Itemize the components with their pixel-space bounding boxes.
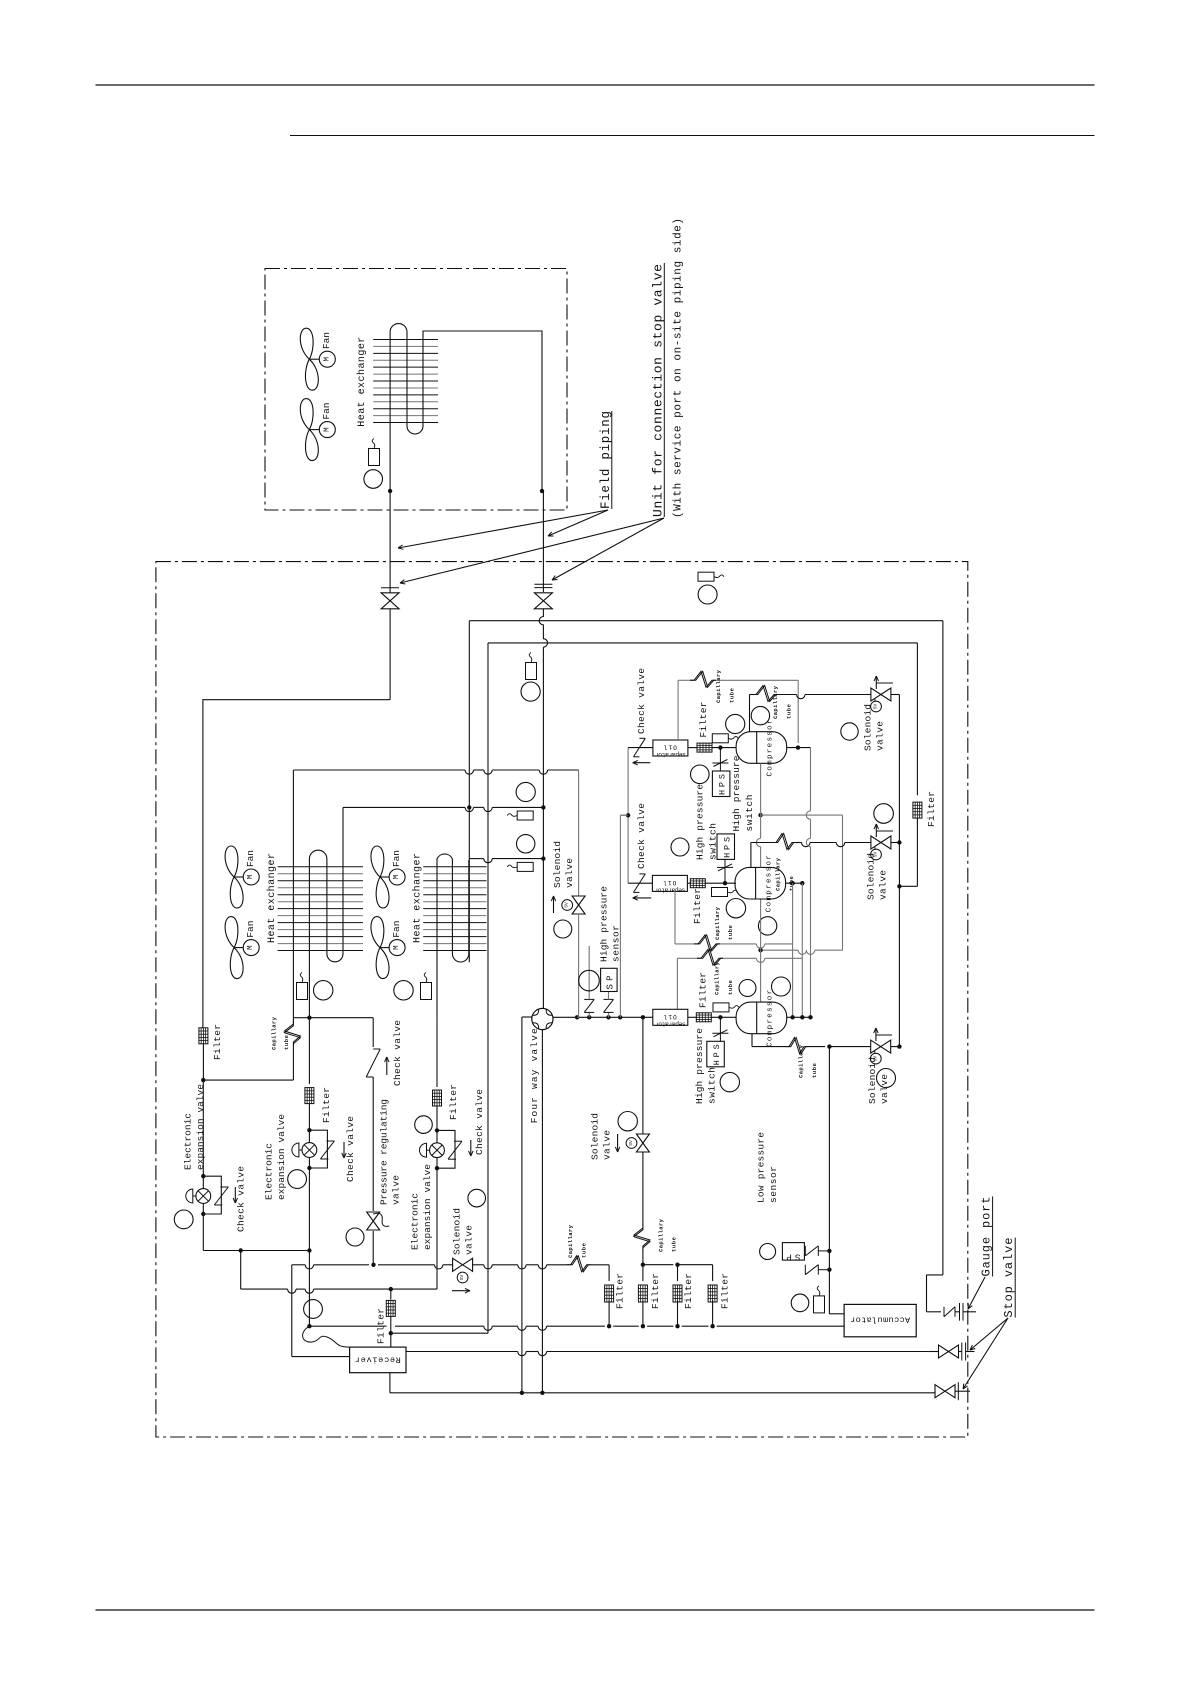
fan motors (main HX) bbox=[380, 876, 389, 878]
svg-text:tube: tube bbox=[727, 924, 734, 940]
svg-text:switch: switch bbox=[744, 795, 755, 832]
node: receiver filter riser top bbox=[389, 1287, 393, 1291]
node: PRV / liquid bus bbox=[371, 1263, 375, 1267]
svg-text:separator: separator bbox=[655, 751, 686, 758]
filter FB4 bbox=[708, 1285, 717, 1302]
oil separator 2 bbox=[652, 875, 687, 891]
wire: liquid line to stop valve bbox=[406, 1351, 518, 1353]
node: gas riser / header1 bbox=[541, 805, 545, 809]
deco circle SV2 bbox=[874, 804, 894, 824]
svg-text:Compressor: Compressor bbox=[767, 720, 775, 777]
wire: SV column x899.4 bbox=[898, 843, 900, 887]
svg-text:Filter: Filter bbox=[448, 1084, 459, 1120]
thermistor gas-pipe bbox=[526, 663, 537, 680]
pressure regulating valve PRV bbox=[367, 1212, 380, 1221]
wire: SV2 out bbox=[891, 842, 900, 844]
node: SV column y842.5 bbox=[897, 840, 901, 844]
wire: EEV2 down to receiver squiggle node bbox=[308, 1168, 310, 1251]
svg-text:Fan: Fan bbox=[391, 850, 402, 867]
compressor 2 bbox=[735, 867, 786, 899]
node: receiver riser y1333.2 bbox=[389, 1331, 393, 1335]
deco circle EEV2 bbox=[288, 1170, 307, 1189]
wire: field liquid pipe bbox=[389, 491, 391, 593]
accumulator bbox=[844, 1304, 916, 1336]
dash-dot box: outdoor unit boundary bbox=[156, 562, 968, 1437]
svg-text:SV: SV bbox=[459, 1275, 465, 1281]
svg-text:SV: SV bbox=[628, 1140, 634, 1146]
svg-text:Capillary: Capillary bbox=[774, 857, 781, 891]
wire: PRV to main liquid bus bbox=[372, 1231, 374, 1265]
svg-text:(With service port on on-site: (With service port on on-site piping sid… bbox=[672, 218, 684, 518]
heat exchanger fins (main HX) bbox=[423, 866, 486, 868]
deco circle PRV bbox=[346, 1228, 364, 1246]
fan motors (main HX) bbox=[234, 876, 243, 878]
thermistor comp3 bbox=[713, 1003, 729, 1012]
high pressure switch HPS1 bbox=[719, 748, 721, 763]
svg-text:switch: switch bbox=[706, 1067, 717, 1104]
svg-text:valve: valve bbox=[874, 721, 885, 751]
node: comp2 inlet bbox=[723, 881, 727, 885]
receiver bbox=[350, 1347, 406, 1373]
svg-text:valve: valve bbox=[877, 870, 888, 900]
svg-text:SV: SV bbox=[873, 704, 879, 710]
wire: N1 sensor stub bbox=[588, 1012, 590, 1017]
wire: receiver bottom to gas line bbox=[389, 1373, 391, 1393]
deco circle SV3 bbox=[877, 1069, 896, 1088]
svg-text:Solenoid: Solenoid bbox=[452, 1208, 463, 1255]
node: bus SP bbox=[606, 1015, 610, 1019]
wire: gas riser from stop valve to four way valve bbox=[389, 609, 391, 700]
svg-text:Compressor: Compressor bbox=[767, 990, 775, 1047]
svg-text:valve: valve bbox=[464, 1225, 475, 1255]
wire: HX1 outlet header y807.4 bbox=[343, 806, 465, 808]
svg-text:valve: valve bbox=[391, 1175, 402, 1205]
fan F2 (connection unit) bbox=[300, 399, 313, 430]
label Check valve (EEV1) bbox=[234, 1187, 236, 1203]
svg-text:Check valve: Check valve bbox=[345, 1116, 356, 1182]
node: bus x620 bbox=[618, 1015, 622, 1019]
wire: y1333.2 link bbox=[391, 1332, 488, 1334]
wire: EEV2 line bbox=[308, 1018, 310, 1084]
svg-text:High pressure: High pressure bbox=[695, 784, 706, 860]
svg-text:Check valve: Check valve bbox=[236, 1166, 247, 1232]
svg-text:Four way valve: Four way valve bbox=[529, 1028, 540, 1123]
node: SV6 / filter line bbox=[641, 1263, 645, 1267]
solenoid valve SV6 bbox=[636, 1134, 649, 1143]
wire: oil separator1 top riser bbox=[677, 680, 679, 740]
node: SV column end bbox=[897, 1044, 901, 1048]
svg-text:valve: valve bbox=[602, 1130, 613, 1160]
svg-text:expansion valve: expansion valve bbox=[422, 1164, 433, 1250]
node: bus SV4 bbox=[575, 1015, 579, 1019]
leader arrows: stop valve bbox=[970, 1318, 1008, 1350]
svg-text:M: M bbox=[323, 427, 331, 432]
oil separator 3 bbox=[653, 1009, 688, 1025]
svg-text:M: M bbox=[247, 874, 255, 879]
svg-text:Check valve: Check valve bbox=[392, 1020, 403, 1086]
wire: four way valve bottom leg x542.4 bbox=[541, 1030, 543, 1393]
wire: CV1 riser stub bbox=[620, 814, 628, 816]
four way valve FWV bbox=[532, 1008, 553, 1029]
svg-text:M: M bbox=[393, 945, 401, 950]
check valve CV2 bbox=[634, 874, 646, 893]
wire: EEV1 line bbox=[202, 1080, 204, 1176]
svg-text:Low pressure: Low pressure bbox=[756, 1132, 767, 1203]
wire: right column verticals bbox=[792, 883, 794, 1017]
svg-text:Fan: Fan bbox=[321, 332, 332, 349]
wire: EEV3 line bbox=[436, 1018, 438, 1087]
deco circle SP2 bbox=[760, 1244, 776, 1260]
wire: gas header lower y642.9 bbox=[488, 642, 917, 644]
heat exchanger coil (connection unit) bbox=[390, 324, 542, 491]
wire: filter bottoms line y1326.2 bbox=[608, 1300, 610, 1326]
svg-text:Filter: Filter bbox=[719, 1273, 730, 1309]
wire: accumulator riser x829.4 bbox=[828, 1047, 830, 1314]
stop valve SVL (liquid, connection) bbox=[381, 587, 399, 589]
svg-text:Fan: Fan bbox=[245, 850, 256, 867]
svg-text:Receiver: Receiver bbox=[355, 1355, 401, 1365]
wire: compressor2 suction line y883.2 bbox=[628, 882, 652, 884]
svg-text:Heat exchanger: Heat exchanger bbox=[356, 337, 368, 427]
filter FB3 bbox=[673, 1285, 682, 1302]
svg-text:Filter: Filter bbox=[698, 972, 709, 1008]
wire: SV4 riser bbox=[578, 770, 580, 896]
svg-text:Heat exchanger: Heat exchanger bbox=[266, 853, 278, 943]
filter F-C2 bbox=[690, 879, 705, 888]
deco circle EEV3 bbox=[415, 1116, 433, 1134]
svg-text:Capillary: Capillary bbox=[714, 961, 721, 995]
electronic expansion valve EEV1 bbox=[201, 1174, 205, 1178]
svg-text:M: M bbox=[323, 356, 331, 361]
thermistor header1 bbox=[516, 782, 535, 801]
svg-text:Check valve: Check valve bbox=[636, 668, 647, 734]
wire: oil return capillary A1 bbox=[678, 679, 690, 681]
thermistor header2 bbox=[517, 835, 535, 853]
wire: branch to check valve CVa bbox=[309, 1017, 373, 1019]
svg-text:tube: tube bbox=[788, 875, 795, 891]
svg-text:Gauge port: Gauge port bbox=[980, 1197, 994, 1277]
wire: EEV1 to bottom header bbox=[202, 1214, 204, 1251]
node: EEV1 top junction bbox=[201, 1078, 205, 1082]
wire: bus drop to receiver loop x291.8 bbox=[291, 1265, 293, 1357]
node: header1/riser469 bbox=[467, 805, 471, 809]
svg-text:Oil: Oil bbox=[664, 744, 677, 751]
thermistor (main HX) bbox=[394, 981, 413, 1000]
gauge port line bbox=[927, 1274, 943, 1276]
svg-text:Electronic: Electronic bbox=[410, 1193, 421, 1250]
node: comp1 suction x798 bbox=[796, 745, 800, 749]
node: bus x792.6 bbox=[790, 1015, 794, 1019]
electronic expansion valve EEV3 bbox=[435, 1128, 439, 1132]
wire: branch x240.7 bbox=[240, 1251, 242, 1290]
page top rule bbox=[96, 84, 1095, 86]
thermistor top-right bbox=[698, 572, 714, 581]
svg-text:tube: tube bbox=[671, 1236, 678, 1252]
filter FB2 bbox=[638, 1285, 647, 1302]
svg-text:tube: tube bbox=[727, 979, 734, 995]
electronic expansion valve EEV2 bbox=[307, 1128, 311, 1132]
wire: SV4 to bus bbox=[578, 914, 580, 1017]
filter F-C1 bbox=[697, 743, 712, 752]
deco circle SV6 bbox=[618, 1112, 637, 1131]
deco circle SV1 bbox=[841, 723, 858, 740]
svg-text:Check valve: Check valve bbox=[636, 803, 647, 869]
svg-text:Filter: Filter bbox=[650, 1273, 661, 1309]
wire: long gas line x488 bbox=[487, 643, 489, 1333]
svg-text:Fan: Fan bbox=[391, 921, 402, 938]
wire: compressor1 oil line y815 bbox=[758, 813, 762, 817]
svg-text:HPS: HPS bbox=[722, 837, 732, 858]
svg-text:Fan: Fan bbox=[321, 403, 332, 420]
wire: SV1 to suction column bbox=[891, 694, 900, 696]
node: accumulator riser / B3 bbox=[827, 1044, 831, 1048]
filter FL1 (liquid line) bbox=[199, 1028, 208, 1044]
node: gas riser / header2 bbox=[541, 856, 545, 860]
deco circle SP1 bbox=[579, 970, 600, 991]
fan (main HX) bbox=[225, 846, 238, 877]
receiver inlet squiggle bbox=[303, 1326, 350, 1347]
label Check valve (EEV3) bbox=[470, 1140, 472, 1156]
filter F-REC bbox=[386, 1300, 395, 1316]
wire: CVa to pressure regulating valve bbox=[372, 1077, 374, 1211]
heat exchanger fins (main HX) bbox=[278, 866, 363, 868]
svg-text:Oil: Oil bbox=[664, 1013, 677, 1020]
svg-text:M: M bbox=[393, 874, 401, 879]
low pressure sensor SP2 bbox=[818, 1250, 829, 1252]
page bottom rule bbox=[96, 1609, 1095, 1611]
svg-text:High pressure: High pressure bbox=[731, 755, 742, 831]
section rule bbox=[290, 135, 1095, 137]
filter FR (right column) bbox=[913, 802, 922, 818]
solenoid valve SV3 bbox=[871, 1040, 881, 1053]
deco circle EEV1 bbox=[174, 1210, 193, 1229]
wire: SV6 to capillary bbox=[642, 1152, 644, 1224]
wire: comp2/comp3 riser bbox=[760, 900, 762, 1003]
svg-text:Capillary: Capillary bbox=[271, 1016, 278, 1050]
wire: liquid bus y1264.8 bbox=[292, 1264, 305, 1266]
svg-text:Solenoid: Solenoid bbox=[552, 841, 563, 888]
svg-text:SV: SV bbox=[564, 902, 570, 908]
wire: SV6 branch x642.8 bbox=[642, 1017, 644, 1134]
svg-text:Solenoid: Solenoid bbox=[865, 853, 876, 900]
wire: stub to column x620 at y815 bbox=[620, 814, 628, 816]
svg-text:tube: tube bbox=[785, 703, 792, 719]
label Check valve (EEV2) bbox=[343, 1142, 345, 1158]
node: bus x810.5 bbox=[808, 1015, 812, 1019]
thermistor (connection unit) bbox=[369, 449, 380, 466]
deco circle SV4 bbox=[554, 920, 572, 938]
deco circle HPS3 bbox=[720, 1072, 739, 1091]
wire: riser x469 (inner gas) bbox=[468, 621, 470, 963]
filter FB1 bbox=[605, 1285, 614, 1302]
svg-text:Filter: Filter bbox=[321, 1087, 332, 1123]
svg-text:Accumulator: Accumulator bbox=[850, 1315, 910, 1325]
svg-text:Filter: Filter bbox=[683, 1273, 694, 1309]
stop valve SVG (gas, connection) bbox=[534, 583, 552, 585]
check valve CV1 bbox=[634, 738, 646, 757]
sensor stub N2 bbox=[804, 1265, 806, 1275]
compressor 1 bbox=[736, 732, 787, 764]
solenoid valve SV5 bbox=[453, 1258, 463, 1271]
node: comp1 inlet bbox=[718, 745, 722, 749]
node: bus SV6 bbox=[641, 1015, 645, 1019]
leader arrows: field piping bbox=[548, 510, 608, 536]
svg-text:tube: tube bbox=[283, 1034, 290, 1050]
svg-text:Capillary: Capillary bbox=[797, 1044, 804, 1078]
filter F-EEV2 bbox=[305, 1088, 314, 1104]
deco circle receiver bbox=[304, 1300, 323, 1319]
filter F-EEV3 bbox=[433, 1090, 442, 1106]
wire: HX header y770 to SV4 bbox=[293, 769, 465, 771]
svg-text:Capillary: Capillary bbox=[657, 1218, 664, 1252]
wire: compressor1 discharge B1 bbox=[749, 695, 751, 732]
svg-text:High pressure: High pressure bbox=[599, 886, 610, 962]
solenoid valve SV2 bbox=[871, 836, 881, 849]
svg-text:tube: tube bbox=[811, 1062, 818, 1078]
receiver filter riser bbox=[390, 1289, 392, 1299]
svg-text:sensor: sensor bbox=[768, 1166, 779, 1203]
wire: field gas pipe bbox=[542, 490, 543, 492]
wire: filter column x917.4 bbox=[916, 643, 918, 795]
node: comp2 suction x802.3 bbox=[800, 881, 804, 885]
heat exchanger coil (main HX) bbox=[437, 854, 469, 1018]
svg-text:Pressure regulating: Pressure regulating bbox=[379, 1099, 390, 1205]
svg-text:Filter: Filter bbox=[615, 1273, 626, 1309]
node: CV1 stub bbox=[626, 813, 630, 817]
wire: compressor2 discharge B2 bbox=[750, 843, 752, 868]
high pressure sensor SP1 bbox=[608, 1012, 610, 1017]
wire: oil separator2 bottom return bbox=[674, 891, 676, 944]
wire: four way valve left leg x521.9 bbox=[521, 1017, 523, 1393]
wire: comp1 bottom riser x760.6 bbox=[760, 763, 762, 815]
stop valve main liquid bbox=[939, 1345, 959, 1358]
thermistor accumulator bbox=[791, 1294, 809, 1312]
high pressure switch HPS2 bbox=[724, 867, 726, 883]
wire: SV3 out bbox=[891, 1046, 900, 1048]
leader arrows: unit for connection stop valve bbox=[552, 518, 664, 580]
filter F-C3 bbox=[696, 1013, 711, 1022]
svg-text:Field piping: Field piping bbox=[599, 411, 613, 509]
svg-text:HPS: HPS bbox=[718, 774, 728, 795]
svg-text:Compressor: Compressor bbox=[766, 855, 774, 912]
svg-text:Filter: Filter bbox=[212, 1024, 223, 1060]
svg-text:Solenoid: Solenoid bbox=[590, 1113, 601, 1160]
wire: column x620.4 bbox=[619, 815, 621, 1017]
fan motor M2 bbox=[309, 429, 319, 431]
svg-text:switch: switch bbox=[707, 823, 718, 860]
svg-text:Filter: Filter bbox=[926, 791, 937, 827]
wire: gas header upper y620.7 bbox=[469, 620, 943, 622]
svg-text:High pressure: High pressure bbox=[694, 1028, 705, 1104]
stop valve main gas bbox=[935, 1385, 955, 1398]
svg-text:separator: separator bbox=[655, 1021, 686, 1028]
svg-text:valve: valve bbox=[564, 858, 575, 888]
node: connection unit liquid pipe bbox=[388, 489, 392, 493]
wire: discharge bus y1017.3 bbox=[553, 1016, 653, 1018]
wire: compressor1 suction line y747.6 bbox=[628, 747, 653, 749]
wire: oil separator3 top return bbox=[676, 958, 678, 1009]
svg-text:separator: separator bbox=[654, 887, 685, 894]
fan F1 (connection unit) bbox=[300, 328, 313, 359]
fan (main HX) bbox=[371, 846, 384, 877]
capillary tube (HX1 branch) bbox=[292, 770, 294, 1020]
wire: y1289 interconnect bbox=[314, 1288, 391, 1290]
svg-text:M: M bbox=[247, 945, 255, 950]
svg-text:valve: valve bbox=[879, 1074, 890, 1104]
wire: compressor3 discharge B3 bbox=[751, 1034, 753, 1047]
solenoid valve SV1 bbox=[871, 688, 881, 701]
svg-text:Unit for connection stop valve: Unit for connection stop valve bbox=[651, 264, 666, 517]
svg-text:Capillary: Capillary bbox=[714, 906, 721, 940]
wire: liquid pipe to left filter column bbox=[203, 700, 390, 1028]
node: comp2 suction x792.6 bbox=[790, 881, 794, 885]
wire: filter line upper right segment bbox=[643, 1264, 673, 1266]
node: SV column / filter return bbox=[897, 884, 901, 888]
node: EEV bottom header branch bbox=[239, 1248, 243, 1252]
wire: right column x942.9 bbox=[942, 621, 944, 1275]
wire: HX2 outlet header y858.6 bbox=[469, 858, 484, 860]
compressor 3 bbox=[736, 1002, 787, 1034]
svg-text:Capillary: Capillary bbox=[567, 1224, 574, 1258]
svg-text:expansion valve: expansion valve bbox=[276, 1114, 287, 1200]
node: connection unit gas pipe bbox=[540, 489, 544, 493]
wire: HX1 capillary branch bbox=[298, 1017, 309, 1019]
svg-text:Filter: Filter bbox=[375, 1308, 386, 1344]
svg-text:Electronic: Electronic bbox=[182, 1113, 193, 1170]
svg-text:Filter: Filter bbox=[692, 888, 703, 924]
high pressure switch HPS3 bbox=[719, 1017, 721, 1033]
wire: HX1 v3 to header bbox=[342, 807, 344, 860]
thermistor (main HX) bbox=[297, 983, 308, 1000]
check valve CVa bbox=[366, 1049, 380, 1077]
svg-text:Heat exchanger: Heat exchanger bbox=[412, 853, 424, 943]
svg-text:Oil: Oil bbox=[663, 879, 676, 886]
node: bus N1 bbox=[587, 1015, 591, 1019]
svg-text:HPS: HPS bbox=[712, 1044, 722, 1065]
thermistor comp2 bbox=[712, 888, 728, 897]
svg-text:Capillary: Capillary bbox=[772, 685, 779, 719]
heat exchanger coil (main HX) bbox=[309, 850, 343, 1018]
svg-text:tube: tube bbox=[580, 1242, 587, 1258]
svg-text:Solenoid: Solenoid bbox=[862, 704, 873, 751]
wire: filter risers bbox=[608, 1265, 610, 1281]
svg-text:tube: tube bbox=[728, 687, 735, 703]
svg-text:Filter: Filter bbox=[698, 702, 709, 738]
svg-text:expansion valve: expansion valve bbox=[195, 1084, 206, 1170]
svg-text:Stop valve: Stop valve bbox=[1002, 1238, 1016, 1318]
svg-text:Electronic: Electronic bbox=[263, 1143, 274, 1200]
node: bus comp3 wire bbox=[718, 1015, 722, 1019]
heat exchanger fins (connection unit) bbox=[373, 339, 438, 341]
thermistor comp1 bbox=[712, 734, 728, 743]
svg-text:Fan: Fan bbox=[245, 921, 256, 938]
svg-text:Capillary: Capillary bbox=[715, 669, 722, 703]
leader arrow: gauge port bbox=[968, 1277, 985, 1309]
solenoid valve SV4 bbox=[572, 896, 585, 905]
node: bus x802.3 bbox=[800, 1015, 804, 1019]
oil separator 1 bbox=[653, 740, 688, 756]
svg-text:Check valve: Check valve bbox=[474, 1089, 485, 1155]
svg-text:SP: SP bbox=[606, 976, 616, 990]
fan motor M1 bbox=[309, 358, 319, 360]
node: HX1 outlet bbox=[307, 1016, 311, 1020]
dash-dot box: unit for connection stop valve bbox=[265, 269, 567, 511]
wire: EEV3 to y1289 bbox=[436, 1169, 438, 1290]
